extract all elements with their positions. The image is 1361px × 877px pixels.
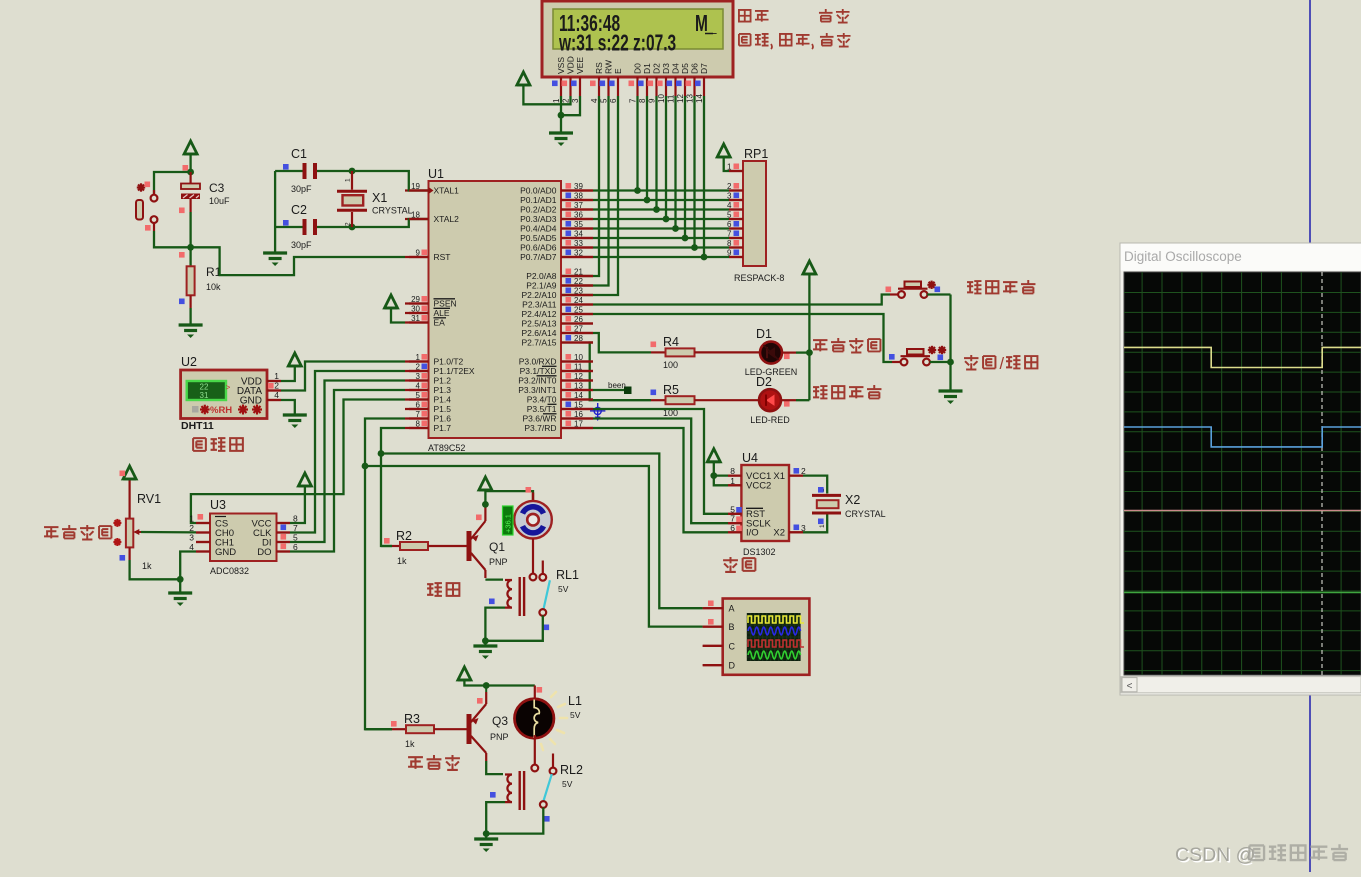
junction Q1 emitter [482, 501, 489, 508]
U4 left pins [728, 475, 741, 477]
svg-text:U4: U4 [742, 451, 758, 465]
svg-text:P0.7/AD7: P0.7/AD7 [520, 252, 557, 262]
wire P1.6 down [365, 419, 405, 730]
X2 state squares [818, 487, 824, 493]
svg-text:14: 14 [695, 94, 704, 103]
svg-text:10k: 10k [206, 282, 221, 292]
wire branch to scope B [365, 466, 703, 627]
svg-text:31: 31 [200, 391, 209, 400]
svg-text:I/O: I/O [746, 528, 759, 539]
svg-text:1k: 1k [405, 739, 415, 749]
U3 left pins [196, 522, 210, 524]
wire C1 to XTAL1 [317, 170, 352, 172]
svg-text:7: 7 [293, 523, 298, 533]
svg-text:R5: R5 [663, 383, 679, 397]
svg-text:C2: C2 [291, 203, 307, 217]
svg-text:w:31 s:22 z:07.3: w:31 s:22 z:07.3 [558, 31, 676, 57]
junction D3 [663, 216, 670, 223]
wire P2.7 to R5 [590, 343, 651, 401]
probe box [723, 599, 810, 675]
svg-text:been: been [608, 381, 626, 390]
RL1 core [519, 577, 521, 616]
resistor R2 [381, 545, 392, 547]
wire P0.4 to RP1 [593, 227, 729, 229]
svg-text:XTAL1: XTAL1 [434, 186, 460, 196]
wire U2 GND to ground [281, 400, 295, 415]
supply column D1D2 [808, 274, 810, 400]
power arrow RV1 [123, 466, 136, 479]
lamp L1 top lead [534, 686, 536, 701]
svg-text:D5: D5 [680, 63, 690, 74]
crystal X1 [351, 171, 353, 190]
relay RL2 coil [486, 761, 503, 774]
svg-text:U1: U1 [428, 167, 444, 181]
svg-text:XTAL2: XTAL2 [434, 214, 460, 224]
wire P0.0 to RP1 [593, 189, 729, 191]
svg-text:P3.2/INT0: P3.2/INT0 [518, 376, 557, 386]
svg-text:CRYSTAL: CRYSTAL [372, 206, 413, 216]
oscilloscope window frame [1120, 243, 1361, 695]
U2 pins [267, 380, 281, 382]
lamp L1 [515, 699, 554, 738]
svg-text:PSEN: PSEN [434, 299, 457, 309]
RP1 pins [729, 170, 743, 172]
svg-text:P2.7/A15: P2.7/A15 [522, 338, 557, 348]
RL2 coil state square [490, 792, 496, 798]
svg-text:10uF: 10uF [209, 196, 230, 206]
motor bottom terminal [530, 574, 537, 581]
wire D0 to P0.0 [636, 96, 638, 191]
wire P0.5 to RP1 [593, 237, 729, 239]
svg-text:PNP: PNP [489, 557, 508, 567]
origin marker [594, 407, 601, 414]
svg-text:RS: RS [594, 62, 604, 74]
button 档位 left stub [890, 293, 898, 295]
wire P3.5 to U4 RST [593, 409, 728, 514]
svg-text:AT89C52: AT89C52 [428, 443, 465, 453]
svg-text:P0.1/AD1: P0.1/AD1 [520, 195, 557, 205]
svg-text:P2.2/A10: P2.2/A10 [522, 290, 557, 300]
svg-text:ADC0832: ADC0832 [210, 566, 249, 576]
wire P0.1 to RP1 [593, 199, 729, 201]
svg-text:P2.0/A8: P2.0/A8 [526, 271, 557, 281]
svg-text:7: 7 [629, 98, 638, 103]
relay RL1 coil [485, 578, 503, 580]
svg-text:D1: D1 [756, 327, 772, 341]
wire X1 bottom to XTAL2 [352, 219, 429, 227]
label 档位选择 [967, 281, 981, 293]
wire button column [949, 295, 951, 392]
U4 right pins [789, 475, 803, 477]
R1 top state square [179, 252, 185, 258]
RV1 wiper [135, 531, 141, 533]
svg-text:DS1302: DS1302 [743, 547, 776, 557]
resistor R5 [651, 399, 666, 401]
junction button2 [947, 359, 954, 366]
svg-text:5V: 5V [570, 710, 581, 720]
svg-text:2: 2 [562, 98, 571, 103]
svg-text:P2.3/A11: P2.3/A11 [522, 300, 557, 310]
svg-text:P1.3: P1.3 [434, 385, 452, 395]
svg-text:RW: RW [604, 60, 614, 74]
svg-text:RESPACK-8: RESPACK-8 [734, 273, 784, 283]
svg-text:+36.1: +36.1 [504, 514, 513, 533]
junction D7 [701, 254, 708, 261]
svg-text:P0.6/AD6: P0.6/AD6 [520, 243, 557, 253]
ground under LCD [560, 115, 562, 133]
junction D6 [691, 244, 698, 251]
svg-text:U2: U2 [181, 355, 197, 369]
ground under RL2 [485, 834, 487, 839]
button RESET [153, 190, 155, 195]
wire D7 to P0.7 [703, 96, 705, 257]
svg-text:1k: 1k [142, 561, 152, 571]
label 工作指示 [813, 386, 827, 398]
junction D0 [634, 187, 641, 194]
junction reset node [187, 244, 194, 251]
capacitor C2 [303, 219, 307, 235]
svg-text:ALE: ALE [434, 308, 450, 318]
junction P1.7 branch [378, 450, 385, 457]
button 档位选择 [898, 291, 905, 298]
svg-text:DO: DO [257, 547, 271, 558]
LCD text line1 [559, 11, 620, 37]
junction D5 [682, 235, 689, 242]
svg-text:RST: RST [434, 252, 451, 262]
LCD text M [695, 11, 717, 37]
RV1 state square top [120, 471, 126, 477]
wire P0.6 to RP1 [593, 246, 729, 248]
motor bottom lead [532, 539, 534, 575]
wire C1C2 vertical [274, 171, 276, 253]
ground under R1 [179, 323, 203, 326]
wire U2 VDD to power [281, 366, 295, 381]
wire C2 to XTAL2 [317, 226, 352, 228]
wire button1 right [927, 293, 950, 295]
junction C2-X1 [349, 224, 356, 231]
oscilloscope scrollbar [1121, 677, 1361, 693]
ground under C1C2 [263, 251, 287, 254]
respack RP1 body [743, 161, 766, 266]
trace blue [1124, 427, 1361, 447]
svg-text:P0.4/AD4: P0.4/AD4 [520, 224, 557, 234]
label 时钟 [723, 557, 738, 572]
L1 bottom lead [534, 735, 536, 765]
terminal been [624, 387, 632, 395]
wire P0.7 to RP1 [593, 256, 729, 258]
button 启动/关闭 [901, 359, 908, 366]
LCD module LM016L body [542, 1, 733, 77]
R2 state square [384, 538, 390, 544]
svg-text:X1: X1 [773, 471, 785, 482]
junction RL2 gnd [483, 830, 490, 837]
U1 left pins [405, 189, 429, 191]
RV1 markers [113, 522, 121, 524]
transistor Q1 [467, 531, 472, 561]
junction D4 [672, 225, 679, 232]
svg-text:C: C [729, 641, 736, 651]
wire P1.3 to ADC DO [290, 390, 405, 552]
trace pink [1124, 510, 1361, 512]
R1 state square [179, 299, 185, 305]
RL1 switch state square [544, 625, 550, 631]
power arrow reset [184, 141, 197, 154]
RL1 coil state square [489, 599, 495, 605]
svg-text:5: 5 [293, 533, 298, 543]
svg-text:VEE: VEE [575, 57, 585, 74]
wire C1 left [275, 170, 302, 172]
svg-text:D2: D2 [652, 63, 662, 74]
svg-text:P3.0/RXD: P3.0/RXD [519, 357, 557, 367]
svg-text:5: 5 [600, 98, 609, 103]
svg-text:CRYSTAL: CRYSTAL [845, 509, 886, 519]
led D1 [760, 342, 782, 364]
svg-text:D6: D6 [690, 63, 700, 74]
wire D1 to P0.1 [646, 96, 648, 200]
R4 state square [651, 342, 657, 348]
resistor R3 [365, 728, 392, 730]
trace yellow [1124, 347, 1361, 367]
op U1 body [429, 181, 562, 438]
U1 right pins [561, 189, 593, 191]
ground under DHT11 [283, 413, 307, 416]
svg-text:P2.5/A13: P2.5/A13 [522, 319, 557, 329]
U3 right pins [277, 522, 291, 524]
wire VDD to power [523, 85, 570, 104]
svg-text:DHT11: DHT11 [181, 420, 214, 432]
RV1 state square bottom [120, 555, 126, 561]
svg-text:6: 6 [293, 542, 298, 552]
svg-text:E: E [613, 68, 623, 74]
probe display [747, 613, 801, 661]
svg-text:5V: 5V [562, 779, 573, 789]
L1 bottom terminal [531, 765, 538, 772]
resistor R1 [189, 247, 191, 266]
wire VSS to ground [560, 96, 562, 115]
wire U3 GND [180, 552, 196, 594]
svg-text:A: A [729, 604, 735, 614]
wire button2 right [930, 361, 951, 363]
svg-text:>: > [226, 383, 231, 392]
svg-text:PNP: PNP [490, 732, 509, 742]
wire D5 to P0.5 [684, 96, 686, 238]
label 重量传感 [44, 527, 58, 538]
svg-text:P1.0/T2: P1.0/T2 [434, 357, 464, 367]
Q3 state square [477, 698, 483, 704]
svg-text:D0: D0 [633, 63, 643, 74]
wire D1 to supply [782, 352, 796, 354]
svg-text:VCC2: VCC2 [746, 481, 771, 492]
wire P2.3 to button1 [593, 295, 890, 305]
svg-text:4: 4 [590, 98, 599, 103]
wire P0.3 to RP1 [593, 218, 729, 220]
power arrow D1D2 [803, 261, 816, 274]
crystal X2 [812, 494, 841, 497]
trace green [1124, 592, 1361, 594]
LCD text line2 [558, 31, 676, 57]
svg-text:<: < [1127, 681, 1133, 692]
wire D6 to P0.6 [693, 96, 695, 248]
U2 icons [192, 406, 199, 413]
svg-text:R4: R4 [663, 335, 679, 349]
svg-text:P3.4/T0: P3.4/T0 [527, 395, 557, 405]
svg-text:3: 3 [189, 533, 194, 543]
svg-text:X2: X2 [845, 493, 860, 507]
U2 display [187, 381, 226, 400]
svg-text:P3.7/RD: P3.7/RD [524, 423, 556, 433]
svg-text:C3: C3 [209, 181, 225, 195]
wire RL1 switch to gnd [485, 616, 542, 641]
svg-text:/: / [1000, 355, 1005, 373]
svg-text:GND: GND [215, 547, 236, 558]
power arrow LCD VDD [517, 72, 530, 85]
svg-text:10: 10 [657, 94, 666, 103]
svg-text:L1: L1 [568, 694, 582, 708]
wire VEE [561, 96, 580, 115]
svg-text:Q3: Q3 [492, 714, 508, 728]
oscilloscope cursor [1321, 272, 1323, 675]
wire rail to motor [485, 491, 533, 503]
wire D3 to P0.3 [665, 96, 667, 219]
motor value box [503, 506, 514, 535]
label 加热器 [408, 757, 423, 769]
svg-text:LED-RED: LED-RED [750, 415, 790, 425]
wire C2 left [275, 226, 302, 228]
svg-text:100: 100 [663, 360, 678, 370]
wire U4 X2 to X2 [803, 515, 827, 533]
wire D4 to P0.4 [674, 96, 676, 229]
svg-text:30pF: 30pF [291, 240, 312, 250]
resistor R4 [651, 351, 666, 353]
wire P1.1 to ADC CLK [290, 371, 405, 533]
svg-text:1: 1 [819, 524, 826, 528]
junction D1 supply [806, 349, 813, 356]
svg-text:R3: R3 [404, 712, 420, 726]
wire P0.2 to RP1 [593, 208, 729, 210]
probe pins [703, 607, 723, 609]
label 温度、湿度、重量 [739, 34, 751, 46]
svg-text:P1.5: P1.5 [434, 404, 452, 414]
svg-text:D3: D3 [661, 63, 671, 74]
RL2 switch [552, 754, 554, 769]
svg-text:6: 6 [609, 98, 618, 103]
svg-text:U3: U3 [210, 498, 226, 512]
svg-text:D4: D4 [671, 63, 681, 74]
svg-text:C1: C1 [291, 147, 307, 161]
svg-text:D2: D2 [756, 375, 772, 389]
Q1 state square [476, 515, 482, 521]
LCD cursor overline [705, 33, 713, 35]
wire E to P2.2 [561, 96, 618, 295]
wire power to RP1 pin1 [724, 157, 729, 171]
svg-text:P2.1/A9: P2.1/A9 [526, 281, 557, 291]
motor fan [514, 501, 552, 539]
svg-text:R2: R2 [396, 529, 412, 543]
R5 state square [651, 390, 657, 396]
wire RS to P2.0 [561, 96, 599, 276]
wire EA to power [391, 308, 405, 323]
wire power to node [189, 154, 191, 172]
transistor Q3 [467, 714, 472, 744]
wire to U4 VCC2 [714, 476, 728, 486]
wire P3.7 to U4 IO [593, 428, 728, 532]
svg-text:1: 1 [345, 178, 352, 182]
wire RW to P2.1 [561, 96, 609, 286]
oscilloscope grid [1141, 272, 1143, 675]
svg-text:D: D [729, 661, 736, 671]
wire button bottom to node2 [154, 231, 191, 247]
RL1 switch [542, 561, 544, 575]
motor state square [526, 487, 532, 493]
svg-text:RL1: RL1 [556, 568, 579, 582]
button2 state squares [889, 354, 895, 360]
svg-text:B: B [729, 622, 735, 632]
wire P1.7 down [381, 428, 405, 546]
reset top state square [183, 165, 189, 171]
wire Q3 rail [464, 680, 534, 686]
label 启动/关闭 [964, 355, 978, 369]
power arrow Q3 [458, 667, 471, 680]
junction Q3 emitter [483, 682, 490, 689]
svg-text:VDD: VDD [566, 56, 576, 74]
sheet border line [1309, 0, 1311, 872]
wire U4 X1 to X2 [803, 476, 827, 494]
button RESET marker [137, 186, 145, 188]
D2 state square [784, 401, 790, 407]
junction RL1 gnd [482, 637, 489, 644]
motor top lead [532, 493, 534, 503]
svg-text:5V: 5V [558, 584, 569, 594]
sensor U2 DHT11 body [181, 370, 267, 419]
label 烘干完成 [813, 340, 827, 351]
svg-text:CSDN @: CSDN @ [1175, 844, 1255, 866]
oscilloscope screen [1124, 272, 1361, 675]
ground under RL1 [484, 641, 486, 646]
svg-text:P0.0/AD0: P0.0/AD0 [520, 186, 557, 196]
svg-text:13: 13 [686, 94, 695, 103]
wire node to button top [154, 172, 191, 195]
wire P1.4 to ADC CS [191, 400, 405, 524]
capacitor C1 [303, 163, 307, 179]
ground under U3 [168, 591, 192, 594]
svg-text:1: 1 [274, 371, 279, 381]
svg-text:P3.3/INT1: P3.3/INT1 [518, 385, 557, 395]
power arrow Q1 [479, 477, 492, 490]
label 风扇 [427, 583, 442, 596]
power arrow U4 [707, 449, 720, 462]
R3 state square [391, 721, 397, 727]
svg-text:P3.1/TXD: P3.1/TXD [520, 366, 557, 376]
junction RV1-GND [177, 576, 184, 583]
wire wiper to CH0 [141, 531, 196, 534]
svg-text:D7: D7 [699, 63, 709, 74]
wire power Q1 stem [484, 490, 486, 504]
power arrow DHT11 [288, 353, 301, 366]
svg-text:11: 11 [667, 94, 676, 103]
svg-text:9: 9 [648, 98, 657, 103]
button2 markers [928, 349, 936, 351]
wire RL2 switch to gnd [486, 808, 543, 834]
wire P2.4 to button2 [593, 314, 892, 362]
svg-text:P3.5/T1: P3.5/T1 [527, 404, 557, 414]
pot RV1 body [129, 479, 131, 519]
svg-text:D1: D1 [642, 63, 652, 74]
wire X1 top to XTAL1 [352, 171, 429, 191]
svg-text:EA: EA [434, 318, 446, 328]
svg-text:RV1: RV1 [137, 492, 161, 506]
wire node to RST [191, 247, 405, 275]
wire U2 DATA to P1.0 [281, 362, 405, 391]
